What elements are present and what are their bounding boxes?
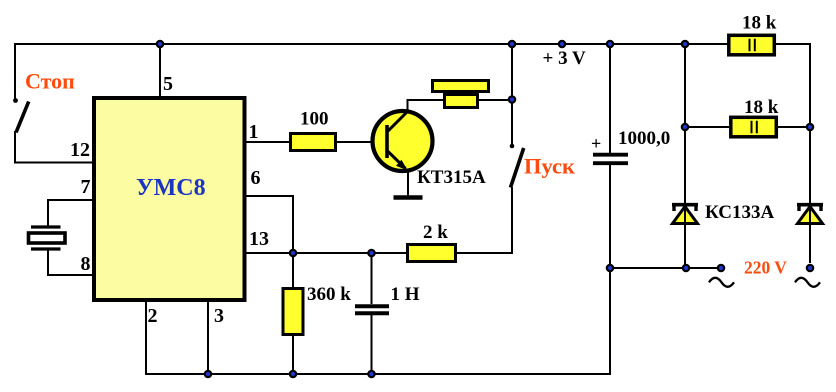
wire 18k-2 left lead	[685, 126, 730, 128]
node dot riser/220V	[606, 264, 615, 273]
svg-text:220 V: 220 V	[744, 258, 787, 278]
wire from Stop switch down to pin 12	[14, 131, 95, 163]
resistor R 360k	[283, 284, 351, 335]
ground bar	[394, 195, 423, 200]
capacitor C 1H	[355, 284, 420, 313]
svg-text:3: 3	[214, 305, 224, 327]
wire Пуск riser lower	[511, 187, 513, 254]
switch SA "Стоп" blade	[13, 98, 29, 132]
node dot pin13/360k	[289, 249, 298, 258]
node dot zener1/top	[681, 40, 690, 49]
svg-text:1000,0: 1000,0	[618, 128, 670, 149]
svg-text:+: +	[591, 134, 601, 154]
wire pin 7 to crystal	[48, 199, 95, 227]
svg-text:Стоп: Стоп	[25, 69, 75, 94]
op IC U1 УМС8 body	[94, 98, 245, 300]
crystal ZQ1	[29, 227, 66, 249]
svg-text:1: 1	[249, 121, 259, 143]
wire 18k-2 right lead	[776, 126, 810, 128]
wire right riser from bottom to cap	[609, 165, 611, 375]
svg-text:6: 6	[251, 167, 261, 189]
node dot 18k2 left	[681, 123, 690, 132]
transistor Q1 КТ315А	[373, 111, 486, 188]
AC tilde terminal 1	[709, 278, 734, 287]
svg-text:18 k: 18 k	[744, 97, 779, 118]
zener diode VD1 КС133А	[672, 202, 775, 224]
wire 1H riser upper	[371, 253, 373, 304]
node dot speaker/pusk	[508, 95, 517, 104]
AC tilde terminal 2	[795, 278, 820, 287]
wire Пуск riser upper	[511, 44, 513, 145]
zener diode VD2	[797, 204, 823, 224]
wire left vertical to Stop switch	[14, 43, 16, 100]
node dot 360k/bottom	[289, 370, 298, 379]
terminal dot 220V left	[717, 264, 726, 273]
svg-text:КТ315А: КТ315А	[417, 167, 486, 188]
node dot +3V	[558, 40, 567, 49]
wire zener1 riser	[684, 44, 686, 268]
wire 360k riser	[292, 253, 294, 374]
svg-text:+ 3 V: + 3 V	[543, 48, 586, 69]
svg-text:УМС8: УМС8	[136, 175, 206, 201]
svg-text:360 k: 360 k	[307, 284, 351, 305]
svg-text:7: 7	[81, 176, 91, 198]
node dot 1H/bottom	[367, 370, 376, 379]
switch SB "Пуск" blade	[510, 144, 524, 188]
wire top-right corner down	[809, 43, 811, 263]
svg-text:100: 100	[300, 109, 329, 130]
resistor R 18k top	[729, 13, 777, 55]
wire collector up and right to Пуск node	[407, 100, 513, 113]
svg-text:КС133А: КС133А	[705, 202, 775, 223]
wire emitter down	[407, 169, 409, 196]
svg-text:2: 2	[148, 305, 158, 327]
node dot cap/top	[606, 40, 615, 49]
wire cap top to top bus	[609, 44, 611, 153]
wire pin 5 vertical	[159, 44, 161, 100]
node dot 18k2 right	[806, 123, 815, 132]
resistor R 18k bottom	[731, 97, 779, 137]
wire pin 2 down	[145, 300, 209, 375]
wire pin 3 down	[207, 300, 209, 374]
resistor 100	[291, 109, 336, 151]
svg-text:Пуск: Пуск	[524, 154, 575, 179]
node dot pin3/bottom	[204, 370, 213, 379]
wire bottom bus	[208, 373, 611, 375]
piezo speaker BF1	[433, 81, 489, 108]
capacitor C 1000,0	[591, 128, 670, 163]
svg-text:18 k: 18 k	[742, 13, 777, 34]
svg-text:13: 13	[249, 228, 269, 250]
node dot pin13/1H	[367, 249, 376, 258]
wire 220V horizontal	[610, 267, 721, 269]
wire crystal to pin 8	[48, 250, 95, 276]
node dot pusk/top	[508, 40, 517, 49]
node dot zener1/220V	[682, 264, 691, 273]
wire zener2 stub over symbol	[809, 127, 811, 263]
svg-text:2 k: 2 k	[423, 222, 448, 243]
svg-text:8: 8	[81, 253, 91, 275]
svg-text:12: 12	[70, 139, 90, 161]
svg-text:5: 5	[163, 73, 173, 95]
wire 1H riser lower	[371, 315, 373, 374]
node dot pin5/top	[156, 40, 165, 49]
resistor R 2k	[408, 222, 456, 262]
wire pin 6 over and down to node 13	[244, 195, 293, 253]
wire pin 1 to transistor base	[244, 141, 390, 143]
terminal dot 220V right	[806, 264, 815, 273]
svg-text:1 Н: 1 Н	[391, 284, 420, 305]
wire pin 13 bus to switch riser	[244, 252, 513, 254]
wire top bus from stop switch to top-right corner	[15, 43, 810, 45]
